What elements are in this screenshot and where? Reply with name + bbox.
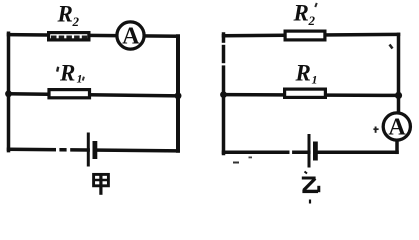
svg-text:2: 2: [72, 14, 80, 29]
svg-text:2: 2: [308, 13, 316, 28]
svg-text:1: 1: [77, 72, 83, 86]
svg-text:R: R: [295, 61, 311, 86]
svg-text:A: A: [388, 115, 406, 141]
svg-text:R: R: [293, 1, 309, 26]
svg-text:A: A: [122, 24, 140, 50]
svg-text:1: 1: [312, 73, 318, 87]
svg-text:R: R: [59, 61, 75, 86]
svg-text:R: R: [57, 2, 73, 27]
